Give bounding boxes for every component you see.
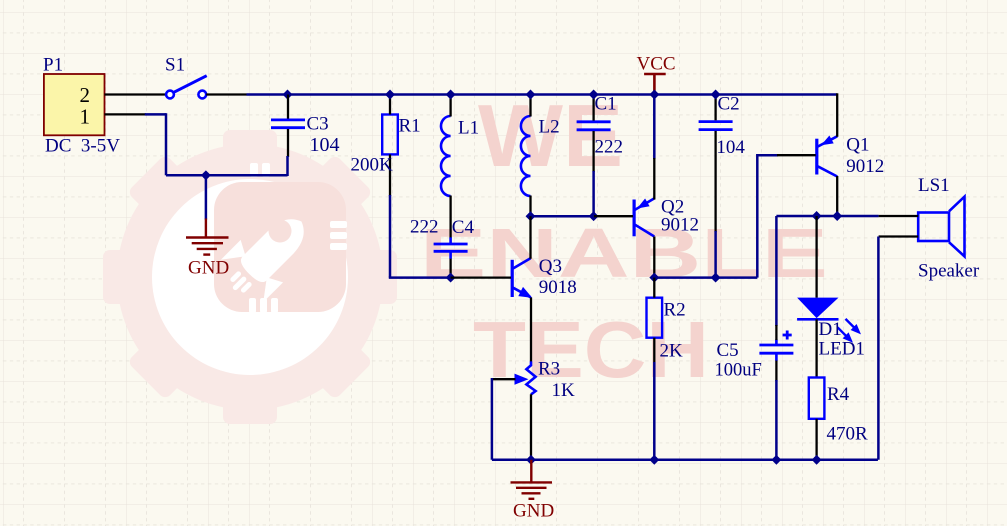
LS1 top pin bbox=[879, 215, 919, 217]
junction C1 top bbox=[589, 90, 599, 100]
D1 value label LED1 bbox=[819, 339, 865, 360]
svg-text:200K: 200K bbox=[351, 155, 394, 176]
D1 top pin bbox=[815, 216, 817, 298]
svg-text:2: 2 bbox=[80, 83, 91, 107]
transistor Q2 bbox=[634, 198, 654, 236]
C4 value label 222 bbox=[410, 217, 439, 238]
C1 designator label bbox=[595, 94, 617, 115]
svg-text:Q1: Q1 bbox=[846, 135, 869, 156]
Q2 value label 9012 bbox=[661, 215, 699, 236]
inductor L1 bbox=[441, 116, 451, 196]
R3 bottom pin bbox=[530, 394, 532, 460]
svg-text:Q3: Q3 bbox=[539, 256, 562, 277]
svg-text:LS1: LS1 bbox=[918, 175, 950, 196]
svg-text:R3: R3 bbox=[538, 359, 560, 380]
svg-text:R1: R1 bbox=[399, 116, 421, 137]
svg-text:R4: R4 bbox=[827, 384, 850, 405]
connector P1 bbox=[44, 74, 105, 135]
P1 pin 1 lead bbox=[105, 113, 147, 115]
ground GND1 bars bbox=[186, 238, 229, 255]
junction C4 bottom bbox=[446, 273, 456, 283]
P1 designator label bbox=[43, 55, 63, 76]
svg-text:Speaker: Speaker bbox=[918, 260, 980, 281]
svg-text:2K: 2K bbox=[660, 341, 684, 362]
resistor R4 bbox=[809, 378, 825, 419]
GND1 label bbox=[188, 257, 229, 278]
C1 bottom pin bbox=[592, 131, 594, 216]
wire speaker node bbox=[776, 215, 878, 218]
R1 bottom pin bbox=[389, 154, 391, 277]
Q2 emitter pin bbox=[653, 95, 656, 200]
wire top bus bbox=[247, 93, 838, 96]
C5 value label 100uF bbox=[715, 361, 762, 381]
L2 top pin bbox=[529, 95, 531, 117]
C3 top pin bbox=[287, 95, 289, 119]
svg-text:470R: 470R bbox=[827, 424, 869, 445]
C5 bottom pin bbox=[775, 361, 777, 460]
wire pin1 to gnd net bbox=[145, 113, 288, 175]
R2 top pin bbox=[653, 278, 655, 298]
svg-text:222: 222 bbox=[595, 136, 624, 157]
VCC label bbox=[637, 54, 676, 75]
wire Q2 collector node bbox=[654, 276, 757, 279]
svg-text:C1: C1 bbox=[595, 94, 617, 115]
R1 value label 200K bbox=[351, 155, 394, 176]
R1 top pin bbox=[389, 95, 391, 115]
svg-text:C2: C2 bbox=[718, 94, 740, 115]
Q1 value label 9012 bbox=[846, 156, 884, 177]
wire R3 wiper to bus bbox=[491, 378, 494, 460]
capacitor C1 bbox=[577, 122, 611, 130]
svg-text:GND: GND bbox=[513, 501, 554, 522]
svg-text:P1: P1 bbox=[43, 55, 63, 76]
svg-text:L2: L2 bbox=[539, 116, 560, 137]
R4 value label 470R bbox=[827, 424, 869, 445]
junction D1 top bbox=[812, 211, 822, 221]
C2 value label 104 bbox=[716, 137, 745, 158]
ground GND2 bars bbox=[511, 482, 553, 498]
ground GND2 stem bbox=[530, 460, 532, 482]
transistor Q3 bbox=[512, 258, 532, 298]
svg-text:DC 3-5V: DC 3-5V bbox=[45, 136, 120, 157]
D1 designator label bbox=[819, 319, 842, 340]
Q2 base pin bbox=[594, 215, 633, 217]
svg-text:104: 104 bbox=[716, 137, 745, 158]
Q3 value label 9018 bbox=[539, 277, 577, 298]
capacitor C4 bbox=[434, 237, 468, 258]
D1 bottom pin bbox=[815, 319, 817, 377]
P1 pin 2 number bbox=[80, 83, 91, 107]
wire C5 net bbox=[775, 216, 778, 326]
R2 value label 2K bbox=[660, 341, 684, 362]
capacitor C3 bbox=[271, 120, 305, 128]
junction Q1 collector bbox=[832, 211, 842, 221]
junction C2 top bbox=[711, 90, 721, 100]
svg-text:9018: 9018 bbox=[539, 277, 577, 298]
P1 value label DC 3-5V bbox=[45, 136, 120, 157]
C5 top pin bbox=[775, 325, 777, 340]
R3 value label 1K bbox=[552, 380, 576, 401]
junction C5 bottom bbox=[771, 455, 781, 465]
svg-text:104: 104 bbox=[310, 134, 340, 156]
junction top of C3 bbox=[283, 90, 293, 100]
junction C2 bottom bbox=[711, 273, 721, 283]
junction R1 top bbox=[385, 90, 395, 100]
svg-text:C4: C4 bbox=[452, 217, 475, 238]
resistor R2 bbox=[647, 298, 663, 338]
R3 wiper lead bbox=[492, 378, 516, 380]
junction VCC bbox=[649, 90, 659, 100]
Q1 designator label bbox=[846, 135, 869, 156]
svg-text:9012: 9012 bbox=[661, 215, 699, 236]
C4 bottom pin bbox=[449, 259, 451, 278]
Q3 collector pin bbox=[529, 216, 531, 259]
C4 designator label bbox=[452, 217, 475, 238]
svg-text:9012: 9012 bbox=[846, 156, 884, 177]
Q2 designator label bbox=[661, 197, 684, 218]
capacitor C2 bbox=[699, 122, 733, 130]
wire Q3 base net bbox=[389, 276, 451, 279]
capacitor C5 bbox=[759, 331, 793, 361]
junction L1 top bbox=[446, 90, 456, 100]
L1 designator label bbox=[458, 118, 479, 139]
wire Q1 base net vertical bbox=[757, 154, 778, 278]
C1 top pin bbox=[592, 95, 594, 121]
junction R4 bottom bbox=[812, 455, 822, 465]
R4 designator label bbox=[827, 384, 850, 405]
Q3 designator label bbox=[539, 256, 562, 277]
junction L2 top bbox=[526, 90, 536, 100]
junction R2 bottom bbox=[649, 455, 659, 465]
rheostat R3 bbox=[515, 361, 536, 394]
Q1 collector pin bbox=[836, 176, 838, 216]
C3 value label 104 bbox=[310, 134, 340, 156]
transistor Q1 bbox=[817, 136, 837, 177]
svg-text:C3: C3 bbox=[307, 114, 329, 135]
svg-text:R2: R2 bbox=[664, 300, 686, 321]
C2 bottom pin bbox=[714, 131, 716, 278]
R3 designator label bbox=[538, 359, 560, 380]
junction L2 bottom node bbox=[526, 211, 536, 221]
Q3 base pin bbox=[451, 276, 511, 278]
svg-text:100uF: 100uF bbox=[715, 361, 762, 381]
R2 bottom pin bbox=[653, 338, 655, 460]
Q1 base pin bbox=[777, 154, 816, 156]
Q2 collector pin bbox=[653, 237, 655, 278]
svg-text:GND: GND bbox=[188, 257, 229, 278]
power VCC symbol bbox=[644, 74, 666, 95]
LS1 value label Speaker bbox=[918, 260, 980, 281]
junction R3 bottom bbox=[526, 455, 536, 465]
switch S1 bbox=[166, 76, 207, 99]
L1 top pin bbox=[449, 95, 451, 117]
R2 designator label bbox=[664, 300, 686, 321]
svg-text:222: 222 bbox=[410, 217, 439, 238]
junction Q2 collector bbox=[649, 273, 659, 283]
resistor R1 bbox=[382, 115, 398, 155]
C3 designator label bbox=[307, 114, 329, 135]
wire speaker return bbox=[877, 237, 880, 460]
speaker LS1 bbox=[918, 197, 964, 257]
P1 pin 1 number bbox=[80, 105, 91, 129]
C3 bottom pin bbox=[286, 129, 289, 176]
svg-text:ENABLE: ENABLE bbox=[420, 214, 828, 292]
P1 pin 2 lead bbox=[105, 93, 167, 95]
wire bottom bus bbox=[492, 459, 878, 462]
svg-text:L1: L1 bbox=[458, 118, 479, 139]
ground GND1 stem bbox=[205, 175, 208, 237]
svg-text:LED1: LED1 bbox=[819, 339, 865, 360]
junction gnd net bbox=[201, 170, 211, 180]
L2 bottom pin bbox=[529, 196, 531, 217]
svg-text:C5: C5 bbox=[717, 340, 739, 361]
junction C1 lead on base net bbox=[589, 211, 599, 221]
C2 top pin bbox=[714, 95, 716, 121]
Q1 emitter pin bbox=[836, 93, 838, 137]
Q3 emitter pin bbox=[530, 298, 532, 362]
LS1 designator label bbox=[918, 175, 950, 196]
inductor L2 bbox=[521, 116, 531, 196]
LS1 bottom pin bbox=[879, 235, 919, 237]
svg-text:1K: 1K bbox=[552, 380, 576, 401]
wire Q2 base net bbox=[531, 215, 595, 218]
R4 bottom pin bbox=[815, 419, 817, 460]
C1 value label 222 bbox=[595, 136, 624, 157]
S1 designator label bbox=[165, 55, 185, 76]
S1 right pin lead bbox=[206, 93, 246, 95]
L1 bottom pin bbox=[449, 196, 451, 239]
svg-text:S1: S1 bbox=[165, 55, 185, 76]
svg-text:1: 1 bbox=[80, 105, 91, 129]
GND2 label bbox=[513, 501, 554, 522]
svg-text:D1: D1 bbox=[819, 319, 842, 340]
R1 designator label bbox=[399, 116, 421, 137]
diode D1 bbox=[797, 298, 861, 343]
svg-text:VCC: VCC bbox=[637, 54, 676, 75]
C2 designator label bbox=[718, 94, 740, 115]
L2 designator label bbox=[539, 116, 560, 137]
C5 designator label bbox=[717, 340, 739, 361]
